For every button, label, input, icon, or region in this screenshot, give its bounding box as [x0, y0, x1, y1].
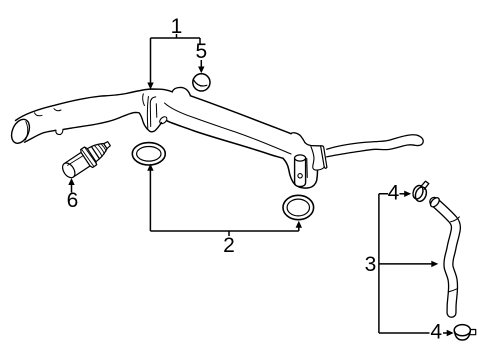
callout 3 arrow [379, 263, 432, 265]
callout 6 arrowhead [68, 178, 74, 185]
notch mark 1 on tube [35, 113, 43, 116]
clamp top (item 4a) [411, 181, 429, 203]
svg-text:3: 3 [365, 253, 377, 276]
callout 4 bottom arrow [443, 332, 447, 334]
O-ring left (item 2a) [132, 143, 165, 165]
svg-text:1: 1 [171, 15, 183, 38]
svg-text:2: 2 [223, 234, 235, 257]
thin tube bottom line [327, 145, 415, 157]
sensor (item 6) [59, 135, 115, 182]
svg-text:4: 4 [388, 182, 400, 205]
callout 5 arrowhead [198, 67, 204, 74]
pipe opening inner lip [26, 122, 28, 141]
hose joint line at upper bend [451, 217, 460, 222]
flange plate left edge [321, 146, 325, 167]
callout 1 bracket [151, 34, 201, 84]
drip bump under tube [56, 130, 63, 135]
port ellipse at pouch [158, 115, 168, 125]
thin tube top line [327, 135, 419, 149]
foot outline (flange bottom) [283, 158, 318, 188]
duct top edge [191, 96, 292, 134]
callout 4 top arrow [400, 193, 405, 195]
thin tube rounded tip [415, 136, 424, 146]
throat long inner curve [147, 97, 148, 129]
pipe opening ellipse (left end) [8, 117, 33, 147]
edge from tab to plate [305, 142, 321, 146]
bottom outline continues to pouch [63, 112, 162, 131]
neck crease between foot and plate [311, 146, 324, 170]
cap (item 5) [193, 74, 210, 91]
pipe ear bump on top [172, 87, 190, 95]
boss cylinder on flange [295, 155, 306, 187]
clamp bottom (item 4b) [454, 325, 476, 340]
flange plate bottom [324, 167, 327, 169]
callout 3/4 bracket [379, 194, 430, 333]
callout 2 bracket [150, 170, 298, 236]
callout 2 left arrowhead [147, 164, 153, 171]
throat short line [155, 104, 158, 118]
flange tab on top [291, 133, 305, 143]
callout 2 right arrowhead [296, 221, 302, 228]
bolt hole on flange [298, 174, 302, 178]
pipe assembly: left tube top outline [16, 89, 173, 121]
hose joint line near bottom [448, 289, 457, 292]
throat corner detail [150, 97, 156, 127]
O-ring right (item 2b) [283, 195, 314, 219]
left tube bottom outline [25, 130, 56, 142]
flange plate right edge [321, 146, 327, 167]
callout 5 line [200, 60, 202, 68]
svg-text:4: 4 [430, 321, 442, 344]
hose top opening [429, 196, 441, 208]
duct bottom edge [167, 121, 283, 159]
duct inner crease line [165, 103, 292, 154]
callout 1 arrowhead [147, 83, 153, 90]
hose (item 3) [429, 196, 459, 313]
notch mark 2 on tube [54, 109, 61, 111]
foot inner edge by boss [306, 159, 309, 178]
svg-text:5: 5 [195, 40, 207, 63]
callout 6 line [71, 184, 73, 193]
throat paren detail [143, 94, 145, 106]
svg-text:6: 6 [67, 189, 79, 212]
